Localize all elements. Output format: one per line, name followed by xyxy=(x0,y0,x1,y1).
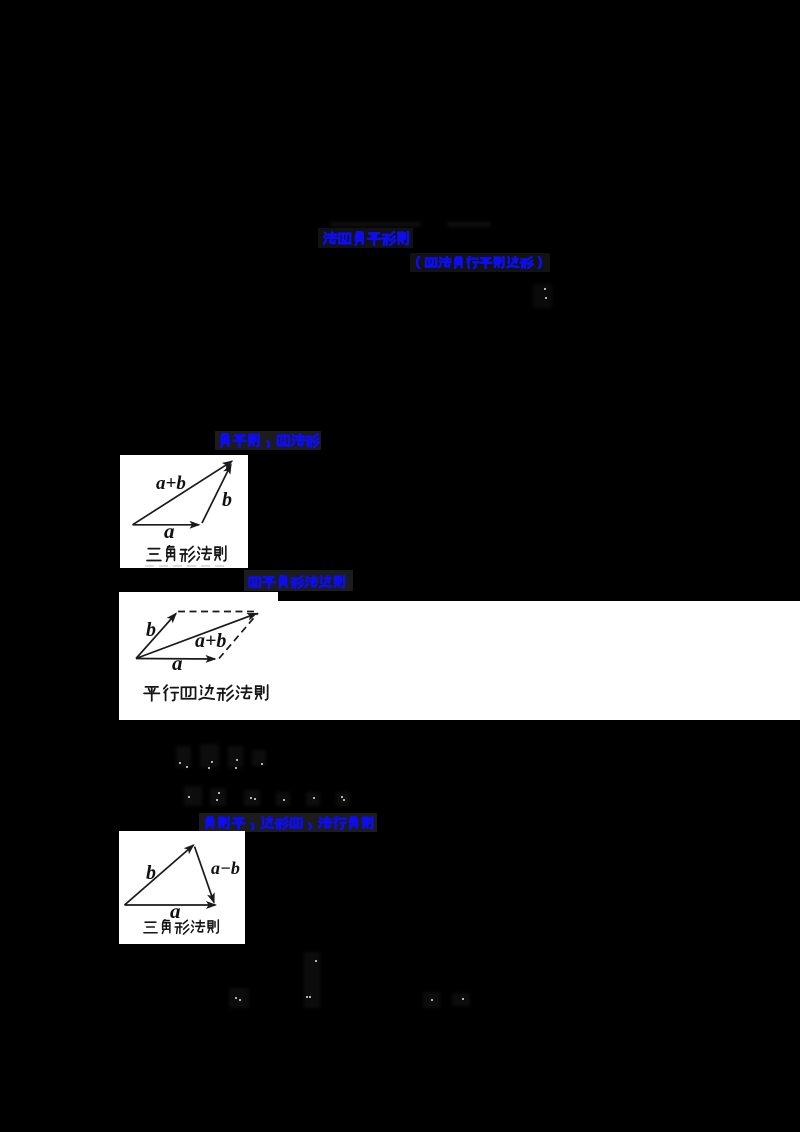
box2 caption xyxy=(143,684,271,702)
blue heading text 1 xyxy=(318,228,413,248)
ghost formula row 1 xyxy=(176,746,191,768)
box2 parallelogram arrows xyxy=(119,592,278,720)
box3 label a xyxy=(170,899,181,924)
box1 label b xyxy=(222,489,232,512)
blue mnemonic above box 1 xyxy=(215,431,321,450)
bottom ghost formulas xyxy=(229,988,249,1008)
white figure box 3 xyxy=(119,831,245,944)
white figure box 2 with side band xyxy=(119,592,278,720)
white figure box 1 xyxy=(120,455,248,568)
box2 label a+b xyxy=(195,630,226,653)
blue heading text 2 (parenthesized) xyxy=(410,253,550,272)
ghost colon specks xyxy=(533,284,552,308)
box3 caption xyxy=(143,919,221,935)
ghost formula row 2 xyxy=(184,786,202,806)
blue mnemonic above box 2 xyxy=(244,570,353,591)
blue mnemonic above box 3 xyxy=(199,813,377,832)
box2 label a xyxy=(172,651,183,676)
box1 triangle arrows xyxy=(120,455,248,568)
box1 label a+b xyxy=(156,473,186,495)
box3 label a-b xyxy=(211,858,240,879)
box1 caption xyxy=(146,545,229,563)
faint dashed underline under box1 caption xyxy=(145,565,226,567)
box3 label b xyxy=(146,862,156,885)
box3 triangle arrows xyxy=(119,831,245,944)
box1 label a xyxy=(164,519,175,544)
ghost strip above blue text 1 xyxy=(330,222,421,227)
box2 label b xyxy=(146,619,156,642)
